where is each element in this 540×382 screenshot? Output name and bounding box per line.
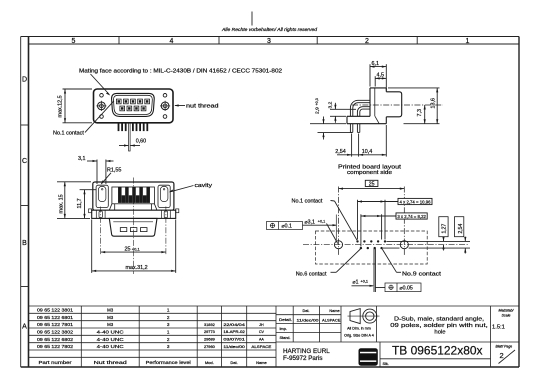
svg-text:2,54: 2,54 [335, 149, 346, 155]
svg-text:Mating face according to : MIL: Mating face according to : MIL-C-2430B /… [79, 68, 282, 74]
top row solder dots [356, 240, 386, 249]
right cavity tower [158, 185, 170, 207]
svg-text:Name: Name [256, 360, 267, 365]
dim 3,2 [330, 103, 356, 123]
hole extension line [335, 215, 337, 241]
svg-text:2: 2 [167, 315, 170, 320]
svg-text:4-40 UNC: 4-40 UNC [97, 337, 124, 342]
svg-text:M3: M3 [107, 322, 114, 327]
flange top edge [370, 87, 386, 89]
svg-text:2: 2 [365, 38, 369, 45]
svg-text:Detail.: Detail. [279, 318, 292, 322]
zone divider left B/A [21, 286, 29, 288]
contact block [112, 187, 154, 204]
dim 11,7 [80, 190, 96, 219]
svg-text:B: B [22, 240, 27, 247]
svg-text:⌀0.1: ⌀0.1 [282, 224, 292, 230]
svg-text:Scale: Scale [502, 313, 511, 317]
flange rear face [369, 88, 371, 116]
fold mark tick [251, 12, 253, 26]
svg-text:2,54: 2,54 [458, 224, 464, 234]
svg-text:09 poles, solder pin with nut,: 09 poles, solder pin with nut, [390, 323, 488, 329]
nut thread right circles [161, 102, 169, 110]
svg-text:R1,55: R1,55 [107, 168, 121, 174]
frame bottom [21, 366, 519, 368]
frame right [518, 37, 520, 368]
svg-text:Imp.: Imp. [280, 327, 287, 331]
top row pins (5) [116, 99, 149, 104]
svg-text:Blatt/ Page: Blatt/ Page [496, 344, 513, 348]
bent pin row A [350, 100, 369, 132]
svg-text:HARTING EURL: HARTING EURL [283, 348, 330, 355]
svg-text:+0,1: +0,1 [361, 280, 369, 284]
svg-text:3,2: 3,2 [328, 101, 334, 108]
front view flange outline [94, 89, 174, 123]
zone band bottom line [29, 43, 520, 45]
svg-text:4,5: 4,5 [377, 73, 385, 79]
svg-text:No.1 contact: No.1 contact [53, 131, 84, 137]
svg-text:cavity: cavity [195, 183, 213, 189]
nut thread leader [175, 105, 185, 107]
position tolerance frame 0.1 [267, 222, 303, 230]
shroud outer D [112, 93, 155, 116]
No.1 contact leader [85, 101, 114, 133]
top row pin tips [118, 100, 149, 103]
shroud holes (3) [120, 228, 127, 232]
zone divider left C/B [21, 205, 29, 207]
svg-text:7,3: 7,3 [417, 109, 423, 117]
zone divider top 5/4 [118, 37, 120, 45]
svg-text:Alle Rechte vorbehalten/ All r: Alle Rechte vorbehalten/ All rights rese… [221, 27, 318, 32]
svg-text:Stand.: Stand. [280, 336, 291, 340]
rear shroud trapezoid [109, 218, 157, 236]
svg-text:1: 1 [167, 329, 170, 334]
mating face leader [91, 74, 110, 95]
svg-text:M3: M3 [107, 315, 114, 320]
svg-text:Sik.: Sik. [383, 362, 389, 366]
contact block tall bars [118, 187, 150, 203]
svg-text:09 65 122 3802: 09 65 122 3802 [37, 329, 73, 334]
flange right lower [385, 117, 387, 124]
frame left [28, 37, 30, 368]
svg-text:27960: 27960 [204, 344, 216, 349]
svg-text:2,9: 2,9 [315, 107, 321, 114]
svg-text:F-95972 Paris: F-95972 Paris [283, 355, 323, 362]
position tolerance frame 0.05 [375, 287, 385, 289]
svg-text:C: C [22, 158, 27, 165]
svg-text:29689: 29689 [204, 337, 215, 342]
svg-text:JH: JH [259, 323, 264, 327]
strip right tab [176, 209, 179, 213]
parts table nut thread column [97, 307, 124, 349]
svg-text:⌀0.05: ⌀0.05 [400, 286, 413, 292]
svg-text:3: 3 [167, 322, 170, 327]
svg-text:component side: component side [347, 170, 392, 176]
svg-text:max.12,5: max.12,5 [58, 95, 64, 117]
mounting hole right [400, 241, 408, 249]
svg-text:nut thread: nut thread [186, 104, 219, 110]
svg-text:AA: AA [259, 338, 264, 342]
svg-text:Orig. Size DIN A 4: Orig. Size DIN A 4 [344, 334, 374, 338]
svg-text:Mod.: Mod. [205, 360, 214, 365]
nut thread left circles [98, 102, 106, 110]
svg-text:⌀1: ⌀1 [353, 279, 359, 285]
svg-text:Dat.: Dat. [303, 309, 310, 313]
contact block short bars [122, 195, 147, 203]
svg-text:1.5:1: 1.5:1 [492, 324, 505, 330]
rear body outline [93, 182, 174, 210]
dim 25 boxed [339, 180, 405, 188]
strip left tab [89, 209, 92, 213]
foot chamfer [375, 116, 379, 123]
side view centerline [352, 104, 443, 106]
parts table part numbers column [37, 307, 73, 349]
svg-text:13,6: 13,6 [431, 98, 437, 109]
svg-text:1: 1 [466, 38, 470, 45]
svg-text:ALSPACE: ALSPACE [251, 345, 272, 349]
bottom row solder dots [360, 247, 362, 249]
projection symbol circles [363, 309, 377, 323]
svg-text:Nut thread: Nut thread [94, 360, 128, 365]
sheet outer trim line left [20, 37, 22, 368]
dim 0,60 [119, 145, 140, 147]
zone divider top 3/2 [316, 37, 318, 45]
leader dia3,1 to hole [327, 224, 338, 244]
dim 4,5 [375, 76, 386, 86]
svg-text:18-APR-02: 18-APR-02 [223, 330, 245, 334]
board dashed outline [316, 231, 428, 264]
sheet top line [21, 36, 519, 38]
dim 13,6 [388, 88, 440, 124]
svg-text:11/dec/00: 11/dec/00 [223, 345, 245, 349]
dim 3 x 2,74 boxed [361, 213, 427, 247]
description text [390, 316, 488, 335]
bottom row pin tips [121, 107, 145, 110]
svg-text:⌀3,1: ⌀3,1 [305, 219, 315, 225]
zone divider top 2/1 [416, 37, 418, 45]
svg-text:Name: Name [329, 309, 339, 313]
hole centerline left [338, 187, 340, 257]
svg-text:Part number: Part number [39, 360, 73, 365]
svg-text:6,1: 6,1 [372, 61, 380, 67]
shroud inner top line [113, 221, 153, 223]
svg-text:03/07/01: 03/07/01 [223, 338, 245, 342]
corner hole top-right [163, 94, 167, 98]
bent pin row B [357, 107, 369, 117]
svg-text:09 65 122 3801: 09 65 122 3801 [37, 307, 73, 312]
left cavity tower [96, 185, 108, 207]
dim 7,3 [424, 105, 426, 124]
svg-text:3,1: 3,1 [78, 156, 86, 162]
corner hole bottom-right [163, 115, 167, 119]
mounting hole left [334, 241, 342, 249]
svg-text:Dat.: Dat. [230, 360, 237, 365]
shroud inner D [113, 95, 152, 114]
revision date column [223, 323, 245, 349]
svg-text:3 x 2,74 = 8,22: 3 x 2,74 = 8,22 [397, 214, 426, 219]
strip detail lines [96, 210, 170, 218]
foot top edge [347, 115, 370, 117]
solder pins (9) [118, 123, 149, 131]
center pin extension lines [374, 249, 375, 292]
svg-text:3: 3 [167, 344, 170, 349]
rear centerlines [101, 178, 166, 275]
svg-text:+0,1: +0,1 [318, 220, 326, 224]
svg-text:max.31,2: max.31,2 [126, 265, 148, 271]
svg-text:D-Sub, male, standard angle,: D-Sub, male, standard angle, [394, 316, 484, 322]
svg-text:25: 25 [125, 246, 131, 252]
svg-text:29773: 29773 [204, 329, 215, 334]
flange right upper [385, 88, 387, 92]
svg-text:max. 15: max. 15 [58, 194, 64, 213]
dims 2,54 / 10,4 [337, 125, 386, 157]
svg-text:HARTING: HARTING [360, 355, 376, 360]
zone divider top 4/3 [218, 37, 220, 45]
row extension lines right [383, 241, 470, 248]
svg-text:hole: hole [434, 329, 446, 335]
foot left face [346, 116, 348, 123]
svg-text:11,7: 11,7 [77, 198, 83, 208]
parts table performance level column [167, 307, 170, 349]
svg-text:4 x 2,74 = 10,96: 4 x 2,74 = 10,96 [400, 199, 431, 204]
dim 2,9+0,3 [310, 117, 352, 140]
bottom row pins (4) [120, 106, 146, 111]
transition lines [109, 204, 157, 210]
svg-text:Maßstab/: Maßstab/ [499, 309, 515, 313]
svg-text:09 65 122 7801: 09 65 122 7801 [37, 322, 73, 327]
svg-text:4-40 UNC: 4-40 UNC [97, 329, 124, 334]
svg-text:22/04/04: 22/04/04 [223, 323, 245, 327]
dim 6,1 [370, 64, 386, 90]
svg-text:31892: 31892 [204, 322, 215, 327]
mating bump [386, 92, 401, 117]
lug slot left [99, 211, 102, 218]
harting logo [359, 348, 378, 366]
svg-text:2: 2 [167, 337, 170, 342]
corner hole bottom-left [100, 115, 104, 119]
svg-text:TB 0965122x80x: TB 0965122x80x [392, 343, 483, 357]
hole centerline right [403, 187, 405, 257]
svg-text:No.9 contact: No.9 contact [402, 272, 442, 278]
dim 2,54 boxed rotated [455, 217, 464, 237]
svg-text:+0,1: +0,1 [132, 246, 141, 251]
svg-text:5: 5 [72, 38, 76, 45]
projection symbol cone [348, 309, 380, 324]
svg-text:M3: M3 [107, 307, 114, 312]
svg-text:D: D [22, 76, 27, 83]
svg-text:1,27: 1,27 [441, 224, 447, 234]
dim 1,27 boxed rotated [439, 217, 448, 237]
dim 25+0,1 [101, 251, 166, 253]
dim max.12,5 [63, 89, 93, 123]
flange front face line [374, 88, 376, 116]
dim max.15 [57, 182, 91, 219]
svg-text:2: 2 [500, 351, 504, 360]
corner hole top-left [100, 94, 104, 98]
pcb centerline horizontal [303, 244, 468, 246]
svg-text:4-40 UNC: 4-40 UNC [97, 344, 124, 349]
svg-text:09 65 122 6802: 09 65 122 6802 [37, 337, 73, 342]
svg-text:No.1 contact: No.1 contact [292, 198, 323, 204]
zone divider left D/C [21, 124, 29, 126]
parts table header row [39, 360, 268, 365]
dim 3,1 [87, 160, 114, 185]
lug slot right [164, 211, 167, 218]
svg-text:11/dec/00: 11/dec/00 [297, 318, 319, 322]
svg-text:A: A [22, 324, 27, 331]
long center pin [129, 123, 131, 151]
svg-text:1: 1 [167, 307, 170, 312]
parts table grid [29, 306, 520, 367]
svg-text:4: 4 [170, 38, 174, 45]
svg-text:Performance level: Performance level [146, 360, 191, 365]
svg-text:25: 25 [369, 182, 375, 188]
revision name column [251, 323, 272, 349]
flange strip [92, 210, 176, 218]
svg-text:CV: CV [259, 330, 265, 334]
dim max.31,2 [92, 220, 176, 273]
revision mod column [204, 322, 216, 349]
svg-text:3: 3 [267, 38, 271, 45]
svg-text:10,4: 10,4 [362, 149, 373, 155]
svg-text:ALSPACE: ALSPACE [322, 318, 341, 322]
svg-text:09 65 122 6801: 09 65 122 6801 [37, 315, 73, 320]
svg-text:All Dim. in mm: All Dim. in mm [347, 327, 371, 331]
dim 4 x 2,74 boxed [358, 198, 433, 239]
svg-text:No.6 contact: No.6 contact [296, 272, 327, 278]
flange bottom edge [347, 123, 386, 125]
svg-text:+0,3: +0,3 [315, 98, 319, 105]
svg-text:09 65 122 7802: 09 65 122 7802 [37, 344, 73, 349]
title block grid [276, 306, 519, 367]
svg-text:0,60: 0,60 [136, 139, 147, 145]
